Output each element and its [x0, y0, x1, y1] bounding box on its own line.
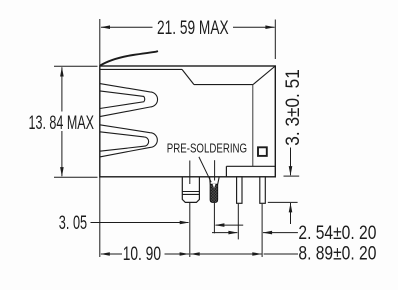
svg-text:21. 59 MAX: 21. 59 MAX	[157, 18, 229, 39]
dim line 3.3 lower tail	[290, 203, 292, 224]
pre-solder pin hatched body	[210, 184, 218, 202]
arrowheads	[60, 25, 292, 255]
dimension texts	[29, 18, 377, 265]
ext line left vertical (21.59 / 10.90)	[99, 19, 101, 257]
latch spring curve	[100, 51, 158, 66]
ext line 13.84 top	[54, 65, 98, 67]
ext line pin bottom right	[268, 201, 298, 203]
leader PRE-SOLDERING vertical	[214, 160, 216, 180]
pre-solder pin taper left	[209, 177, 212, 184]
dim line 21.59	[101, 26, 275, 28]
contact spring 2 outer	[100, 125, 158, 157]
pin A outline	[237, 177, 242, 203]
arrow 13.84 down	[60, 167, 64, 177]
arrow 8.89 right	[252, 252, 261, 256]
ext tick 3.3	[284, 175, 300, 177]
svg-text:13. 84 MAX: 13. 84 MAX	[29, 113, 95, 134]
arrow 3.3 up	[289, 203, 293, 213]
svg-text:PRE-SOLDERING: PRE-SOLDERING	[167, 141, 247, 156]
SMT pad square	[258, 147, 267, 156]
peg center dash	[189, 161, 191, 185]
arrow zig upper left	[215, 223, 225, 227]
svg-text:2. 54±0. 20: 2. 54±0. 20	[298, 223, 376, 244]
wire: bottom right step top	[226, 165, 275, 167]
arrow 2.54 left	[263, 231, 273, 235]
wire: top chamfer diagonal left	[182, 69, 194, 84]
wire: body outline rectangle	[100, 66, 275, 177]
arrow 3.3 down	[289, 166, 293, 176]
dim line 3.3 upper	[290, 148, 292, 176]
wire: inner top edge line	[100, 68, 182, 70]
arrow zig lower right	[228, 231, 238, 235]
arrow 10.90 left	[100, 252, 110, 256]
svg-text:10. 90: 10. 90	[123, 244, 161, 265]
pre-solder pin taper right	[218, 177, 220, 184]
wire: inner horizontal ledge	[194, 84, 253, 86]
ext line pin B center	[261, 204, 263, 257]
arrow 3.05 right	[180, 221, 190, 225]
leader PRE-SOLDERING diagonal	[199, 157, 211, 182]
dim line 8.89	[190, 253, 298, 255]
peg band line lower	[182, 193, 199, 195]
svg-text:3. 3±0. 51: 3. 3±0. 51	[283, 69, 304, 146]
mounting peg outline	[182, 177, 199, 203]
arrow 21.59 left	[101, 25, 111, 29]
pre-solder pin white notch	[213, 184, 216, 188]
contact spring 1 inner	[100, 91, 145, 109]
ext line pin A center	[237, 204, 239, 240]
ext line peg center	[189, 203, 191, 257]
wire: top chamfer diagonal right	[253, 66, 275, 85]
ext line hatch pin center	[213, 203, 215, 234]
contact spring 1 outer	[100, 84, 158, 117]
wire: bottom right step left edge	[225, 166, 227, 177]
ext line 13.84 bottom	[54, 176, 98, 178]
peg band line upper	[182, 191, 199, 193]
dim zig line lower	[212, 232, 237, 234]
svg-text:8. 89±0. 20: 8. 89±0. 20	[298, 243, 376, 264]
dim line 10.90	[101, 253, 189, 255]
arrow 21.59 right	[265, 25, 275, 29]
wire: inner vertical line	[252, 85, 254, 167]
dim zig line upper	[216, 224, 244, 226]
leader 2.54	[263, 232, 298, 234]
arrow 13.84 up	[60, 67, 64, 77]
arrow 8.89 left	[190, 252, 200, 256]
leader 3.05	[91, 222, 189, 224]
pin B outline	[260, 177, 266, 203]
ext line right vertical (21.59)	[274, 20, 276, 60]
svg-text:3. 05: 3. 05	[59, 213, 87, 234]
arrow 10.90 right	[180, 252, 190, 256]
contact spring 2 inner	[100, 132, 149, 151]
dim line 13.84	[61, 67, 63, 176]
